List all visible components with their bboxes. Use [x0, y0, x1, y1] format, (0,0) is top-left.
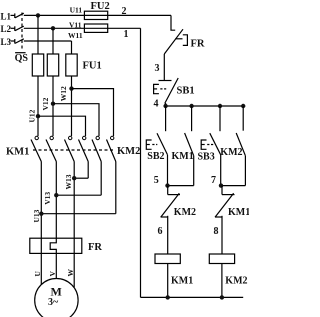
- wire KM2 f out: [115, 162, 117, 214]
- interlock KM2 connector: [161, 216, 168, 218]
- interlock KM2 NC tick: [168, 194, 180, 196]
- svg-text:QS: QS: [15, 53, 29, 64]
- svg-text:W: W: [66, 269, 75, 277]
- svg-text:8: 8: [214, 226, 219, 237]
- wire L2 lead: [11, 27, 16, 29]
- button SB2 actuator link: [152, 144, 157, 146]
- svg-text:U: U: [33, 271, 42, 277]
- svg-text:SB1: SB1: [177, 86, 195, 97]
- contact KM1 pole a arm: [31, 140, 41, 162]
- fuse FU1-2: [47, 54, 58, 76]
- svg-text:V: V: [48, 271, 57, 277]
- contact KM2 pole d circle: [83, 136, 86, 139]
- svg-text:2: 2: [122, 6, 127, 17]
- wire W13 down: [73, 162, 75, 239]
- svg-text:L1: L1: [1, 11, 12, 21]
- wire SB3 to node 7: [220, 155, 222, 186]
- svg-text:U13: U13: [32, 209, 41, 222]
- svg-text:V13: V13: [43, 192, 52, 205]
- wire V13 merge: [56, 194, 101, 196]
- svg-text:U11: U11: [70, 5, 83, 14]
- wire 6: [167, 216, 169, 254]
- FR link dash: [175, 38, 182, 40]
- wire V12 down: [52, 76, 54, 136]
- button SB3 arm: [210, 133, 221, 155]
- svg-text:L3: L3: [1, 37, 12, 47]
- wire KM1 aux to node 5: [193, 156, 195, 186]
- interlock KM2 NC stub: [167, 186, 169, 195]
- junction dot U12: [36, 114, 40, 118]
- coil KM2: [209, 254, 234, 264]
- FR heater V jog: [50, 238, 56, 253]
- wire U12 step to KM2: [38, 116, 86, 136]
- wire SB2 to node 5: [167, 155, 169, 186]
- button SB3 actuator link: [207, 144, 214, 146]
- wire V11: [24, 27, 141, 29]
- FR thermal bracket: [183, 35, 188, 46]
- wire L1 lead: [11, 14, 16, 16]
- wire U13 down: [40, 162, 42, 239]
- button SB2 arm: [157, 133, 168, 155]
- svg-text:1: 1: [124, 29, 129, 40]
- contact KM2 aux arm: [236, 133, 245, 156]
- contact KM2 pole e arm: [92, 140, 101, 162]
- fuse FU1-3: [66, 54, 77, 76]
- motor M circle: [35, 279, 78, 317]
- wire U11: [24, 14, 171, 16]
- button SB1 actuator E: [154, 84, 159, 93]
- svg-text:KM2: KM2: [117, 146, 140, 157]
- switch QS pole 2 fixed tick: [14, 26, 16, 31]
- contact KM2 pole f arm: [107, 140, 116, 162]
- wire 8: [221, 216, 223, 254]
- switch QS linkage (dashed): [21, 13, 23, 50]
- wire V phase down: [52, 28, 54, 54]
- switch QS pole 3 blade: [15, 39, 24, 44]
- wire W to motor: [73, 253, 75, 287]
- wire W12 step to KM2: [72, 89, 114, 136]
- svg-text:KM2: KM2: [174, 207, 196, 218]
- contact KM1 aux stub: [191, 106, 193, 131]
- button SB3 stub: [219, 106, 221, 131]
- svg-text:KM1: KM1: [171, 276, 193, 287]
- button SB2 stub: [165, 106, 167, 131]
- svg-text:KM2: KM2: [220, 147, 242, 158]
- interlock KM2 NC arm: [161, 193, 180, 217]
- interlock KM1 connector: [215, 216, 222, 218]
- bus node 4: [166, 105, 244, 107]
- svg-text:W11: W11: [68, 31, 83, 40]
- thermal contact FR arm: [164, 29, 183, 54]
- button SB2 actuator E: [146, 140, 151, 149]
- wire 2 corner down to FR: [171, 15, 175, 30]
- interlock KM1 NC arm: [215, 193, 234, 217]
- wire 3: [163, 54, 165, 81]
- svg-text:5: 5: [154, 175, 159, 186]
- thermal relay FR box: [30, 238, 82, 253]
- interlock KM1 NC stub: [221, 186, 223, 195]
- switch QS pole 3 fixed tick: [14, 39, 16, 44]
- contact KM2 pole e circle: [96, 136, 99, 139]
- svg-text:3~: 3~: [48, 297, 59, 308]
- fuse FU1-1: [32, 54, 43, 76]
- svg-text:KM1: KM1: [6, 147, 29, 158]
- wire V to motor: [55, 253, 57, 278]
- coil KM1: [155, 254, 180, 264]
- wire U12 down: [37, 76, 39, 136]
- bottom bus wire: [141, 296, 244, 298]
- contact KM2 pole d arm: [79, 140, 89, 162]
- wire W11: [24, 40, 72, 42]
- FR heater W straight: [73, 238, 75, 253]
- wire KM2 aux to node 7: [244, 156, 246, 186]
- interlock KM1 NC tick: [222, 194, 235, 196]
- wire V13 down: [55, 162, 57, 239]
- svg-text:W13: W13: [64, 174, 73, 189]
- svg-text:SB3: SB3: [198, 152, 215, 163]
- contact KM1 pole c arm: [65, 140, 75, 162]
- linkage KM1-KM2 (dashed): [33, 149, 116, 151]
- switch QS pole 1 blade: [15, 13, 24, 18]
- contact KM2 pole f circle: [111, 136, 114, 139]
- svg-text:FR: FR: [191, 39, 205, 50]
- wire W12 down: [71, 76, 73, 136]
- wire U phase down: [37, 15, 39, 54]
- svg-text:FU1: FU1: [83, 61, 102, 72]
- svg-text:3: 3: [155, 63, 160, 74]
- wire KM1 coil to bus: [167, 264, 169, 298]
- svg-text:KM2: KM2: [225, 276, 247, 287]
- junction dot L1 tap: [36, 13, 40, 17]
- svg-text:L2: L2: [1, 24, 12, 34]
- wire U to motor: [40, 253, 42, 284]
- wire KM2 coil to bus: [221, 264, 223, 298]
- contact KM1 aux arm: [185, 133, 194, 156]
- junction dot L2 tap: [51, 26, 55, 30]
- contact KM1 pole b circle: [50, 136, 53, 139]
- wire SB1 to bus 4: [165, 103, 167, 106]
- wire V12 step to KM2: [53, 104, 99, 136]
- fuse FU2-2: [84, 24, 107, 32]
- svg-text:KM1: KM1: [172, 151, 194, 162]
- fuse FU2-1: [84, 11, 107, 19]
- wire KM2 d out: [87, 162, 89, 179]
- button SB1 crossbar: [159, 80, 172, 82]
- switch QS label: [15, 52, 26, 54]
- svg-text:SB2: SB2: [147, 151, 164, 162]
- button SB1 arm: [165, 78, 179, 104]
- svg-text:4: 4: [154, 99, 159, 110]
- node 7 wire: [221, 185, 246, 187]
- wire U13 merge: [41, 213, 116, 215]
- contact KM1 pole c circle: [69, 136, 72, 139]
- svg-text:7: 7: [211, 175, 216, 186]
- junction dot V12: [51, 102, 55, 106]
- wire W phase down: [71, 41, 73, 54]
- svg-text:FR: FR: [88, 242, 102, 253]
- svg-text:KM1: KM1: [228, 207, 249, 218]
- svg-text:W12: W12: [59, 86, 68, 101]
- svg-text:6: 6: [158, 226, 163, 237]
- svg-text:FU2: FU2: [91, 1, 110, 12]
- wire 1 vertical: [140, 28, 142, 297]
- button SB3 actuator E: [201, 140, 206, 149]
- svg-text:V12: V12: [41, 97, 50, 110]
- svg-text:V11: V11: [69, 20, 82, 29]
- contact KM1 pole b arm: [46, 140, 56, 162]
- switch QS pole 2 blade: [15, 26, 24, 31]
- junction dot W12: [69, 86, 73, 90]
- svg-text:U12: U12: [28, 109, 37, 122]
- FR heater U straight: [40, 238, 42, 253]
- wire W13 merge: [74, 177, 88, 179]
- wire L3 lead: [11, 40, 16, 42]
- node 5 wire: [168, 185, 194, 187]
- contact KM2 aux stub: [242, 106, 244, 131]
- junction dots bus 4: [163, 104, 167, 108]
- wire KM2 e out: [100, 162, 102, 196]
- contact KM1 pole a circle: [35, 136, 38, 139]
- svg-text:M: M: [51, 284, 62, 298]
- button SB1 actuator link: [160, 88, 166, 90]
- switch QS pole 1 fixed tick: [14, 13, 16, 18]
